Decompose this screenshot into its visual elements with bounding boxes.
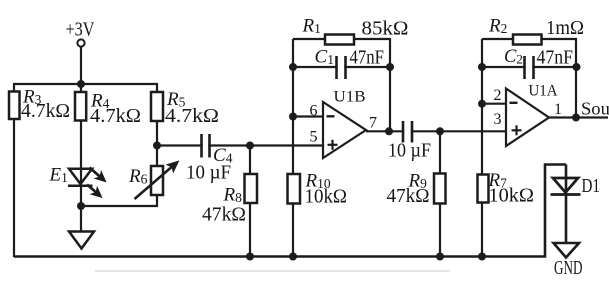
- op-amp U1A: [506, 89, 549, 147]
- resistor R5: [151, 92, 163, 121]
- junction node: [77, 80, 85, 88]
- +3V supply terminal: [77, 39, 84, 46]
- resistor R1: [325, 35, 354, 45]
- svg-text:+3V: +3V: [66, 20, 95, 41]
- wire feedback left vertical R10 branch: [292, 39, 294, 257]
- resistor R7: [478, 175, 489, 203]
- junction node: [289, 113, 297, 121]
- junction node: [478, 100, 486, 108]
- resistor R9: [434, 174, 446, 204]
- svg-text:U1B: U1B: [334, 89, 366, 106]
- svg-text:4.7kΩ: 4.7kΩ: [21, 101, 70, 122]
- LED E1 light arrow 1: [90, 168, 106, 182]
- diode D1: [551, 178, 581, 195]
- ground GND: [554, 243, 580, 258]
- svg-text:Sout: Sout: [581, 99, 609, 119]
- svg-text:7: 7: [369, 115, 377, 132]
- svg-text:1: 1: [554, 101, 562, 118]
- svg-text:6: 6: [310, 103, 318, 120]
- wire top rail: [14, 84, 157, 92]
- wire R5 to node A: [156, 121, 158, 166]
- junction node: [478, 253, 486, 261]
- svg-text:5: 5: [310, 129, 318, 146]
- junction node: [153, 142, 161, 150]
- junction node: [436, 253, 444, 261]
- resistor R4: [75, 92, 86, 121]
- svg-text:2: 2: [494, 87, 502, 104]
- wire R2 feedback top: [482, 39, 576, 118]
- resistor R8: [245, 174, 258, 203]
- arrow of variable resistor R6: [135, 161, 179, 199]
- wire U1B pin 6: [293, 115, 323, 117]
- junction node: [77, 202, 85, 210]
- svg-text:4.7kΩ: 4.7kΩ: [165, 106, 219, 127]
- junction node: [573, 63, 581, 71]
- wire C1 branch: [293, 66, 390, 68]
- wire R8 branch: [249, 146, 251, 258]
- svg-text:1mΩ: 1mΩ: [546, 18, 584, 39]
- resistor R10: [288, 174, 301, 204]
- coupling capacitor 10uF: [403, 121, 412, 143]
- junction node: [572, 114, 580, 122]
- wire left side R3 to bottom rail: [13, 119, 15, 257]
- junction node: [386, 63, 394, 71]
- op-amp U1B: [323, 102, 366, 158]
- svg-text:D1: D1: [582, 176, 601, 197]
- svg-text:47kΩ: 47kΩ: [202, 205, 246, 226]
- svg-text:U1A: U1A: [529, 83, 559, 100]
- junction node: [246, 142, 254, 150]
- svg-text:85kΩ: 85kΩ: [362, 19, 409, 40]
- wire C2 branch: [482, 66, 576, 68]
- svg-text:47nF: 47nF: [537, 48, 574, 69]
- junction node: [436, 127, 444, 135]
- wire node A to C4 and U1B pin 5: [157, 144, 323, 146]
- svg-text:4.7kΩ: 4.7kΩ: [90, 106, 141, 127]
- LED E1: [68, 169, 93, 186]
- svg-text:47kΩ: 47kΩ: [387, 186, 430, 207]
- svg-text:10kΩ: 10kΩ: [305, 187, 348, 208]
- LED E1 light arrow 2: [87, 185, 102, 198]
- svg-text:GND: GND: [554, 258, 583, 279]
- wire bottom ground rail: [14, 165, 566, 257]
- wire D1 to GND: [565, 165, 568, 244]
- wire U1B output to coupling cap to U1A pin 3: [366, 130, 506, 132]
- wire U1A feedback left vertical R7 branch: [481, 39, 483, 257]
- capacitor C1: [337, 56, 346, 79]
- capacitor C4: [202, 134, 210, 158]
- junction node: [385, 127, 393, 135]
- ground arrow below E1: [69, 232, 94, 249]
- junction node: [246, 253, 254, 261]
- capacitor C2: [525, 56, 534, 79]
- svg-text:10 µF: 10 µF: [186, 163, 231, 184]
- resistor R3: [9, 92, 20, 120]
- wire R4 to LED E1 and ground arrow: [80, 120, 82, 232]
- wire R1 feedback top: [293, 39, 390, 131]
- svg-text:10kΩ: 10kΩ: [489, 186, 535, 207]
- junction node: [478, 63, 486, 71]
- wire R6 bottom to E1 cathode: [81, 195, 157, 206]
- svg-text:47nF: 47nF: [350, 48, 385, 69]
- wire R9 branch: [439, 131, 441, 257]
- junction node: [289, 63, 297, 71]
- resistor R2: [513, 35, 542, 45]
- wire U1A output Sout: [549, 116, 608, 118]
- svg-text:3: 3: [494, 111, 502, 128]
- wire U1A pin 2: [482, 103, 506, 105]
- junction node: [289, 253, 297, 261]
- svg-text:10 µF: 10 µF: [388, 141, 431, 162]
- resistor R6 (variable): [151, 166, 163, 195]
- wire +3V stub: [80, 47, 82, 93]
